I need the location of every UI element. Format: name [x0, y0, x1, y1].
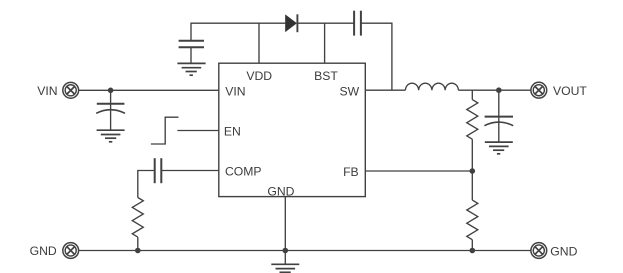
wire VIN to IC	[79, 89, 219, 91]
svg-text:VDD: VDD	[246, 69, 272, 83]
EN step-signal symbol	[151, 117, 179, 144]
wire VDD pin stub	[258, 23, 260, 63]
node VOUT junction	[496, 87, 502, 93]
svg-text:FB: FB	[343, 165, 359, 179]
node VIN-cap junction	[108, 88, 114, 94]
svg-text:BST: BST	[314, 69, 338, 83]
ground (below C4)	[485, 142, 513, 154]
ground (below C2)	[177, 63, 205, 75]
wire BST pin stub	[324, 23, 326, 63]
diode D1	[285, 14, 297, 32]
terminal VOUT	[531, 82, 547, 98]
wire FB pin to divider	[365, 170, 472, 172]
terminal GND right	[531, 243, 547, 259]
inductor L1	[405, 83, 458, 90]
resistor R3 (compensation)	[132, 198, 143, 251]
svg-text:SW: SW	[340, 84, 360, 98]
wire inductor to VOUT	[458, 89, 531, 91]
node GND pin junction	[283, 248, 289, 254]
node R3 to ground rail	[135, 248, 141, 254]
capacitor C3 (bootstrap cap)	[354, 11, 361, 36]
op-amp U1 (buck regulator IC body)	[219, 63, 365, 196]
wire GND pin stub	[284, 197, 286, 251]
capacitor C5 (compensation cap)	[155, 158, 162, 183]
wire COMP pin to C5	[161, 170, 219, 172]
ground (system ground below IC)	[271, 264, 299, 272]
svg-text:GND: GND	[30, 244, 57, 258]
resistor R2 (feedback bottom)	[467, 171, 478, 251]
wire bottom ground rail	[79, 250, 531, 252]
wire EN pin	[177, 130, 218, 132]
wire SW pin to inductor	[365, 89, 405, 91]
terminal GND left	[63, 243, 79, 259]
wire GND pin to ground symbol	[284, 251, 286, 265]
svg-text:GND: GND	[267, 185, 294, 199]
svg-text:COMP: COMP	[225, 165, 262, 179]
svg-text:VIN: VIN	[37, 84, 57, 98]
svg-text:EN: EN	[224, 124, 241, 138]
capacitor C4 (output cap)	[484, 90, 513, 142]
terminal VIN	[63, 82, 79, 98]
node R2 to ground rail	[470, 248, 476, 254]
svg-text:GND: GND	[550, 244, 577, 258]
wire BST cap to SW node	[361, 23, 392, 90]
svg-text:VIN: VIN	[225, 84, 245, 98]
wire top rail (VDD cap to diode anode)	[191, 23, 285, 41]
wire diode cathode to BST cap	[297, 22, 353, 24]
ground (below C1)	[97, 130, 125, 142]
capacitor C1 (VIN input cap)	[96, 90, 125, 130]
capacitor C2 (VDD decoupling cap)	[179, 41, 204, 64]
svg-text:VOUT: VOUT	[553, 84, 587, 98]
node FB junction	[470, 168, 476, 174]
resistor R1 (feedback top)	[467, 90, 478, 171]
wire C5 to R3	[138, 171, 155, 198]
